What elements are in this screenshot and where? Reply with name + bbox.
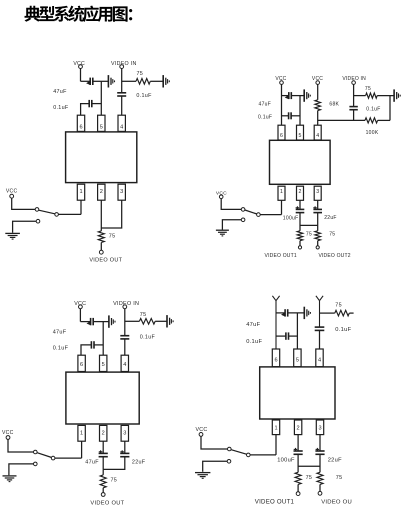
IC U2 body <box>270 140 331 184</box>
svg-text:6: 6 <box>80 362 83 368</box>
switch SW4 pole contact <box>228 447 232 451</box>
svg-text:4: 4 <box>123 362 126 368</box>
wire pin 2 down <box>299 200 301 209</box>
ground (switch) <box>5 233 20 239</box>
IC U4 pin 5 <box>294 349 301 367</box>
wire to 75 termination <box>354 95 366 97</box>
wire 0.1uF to pin5 node <box>92 103 101 105</box>
svg-text:75: 75 <box>335 303 342 309</box>
resistor 75 (output) <box>98 231 104 243</box>
ground (right of 47uF) <box>304 89 310 101</box>
IC U2 pin 6 <box>278 125 285 140</box>
IC U1 pin 4 <box>118 115 125 131</box>
capacitor 0.1uF (input coupling) <box>117 93 126 96</box>
svg-text:VIDEO IN: VIDEO IN <box>113 301 139 307</box>
wire 68K to pin4 <box>317 111 319 126</box>
wire cap2 to resistor 2 <box>319 454 321 472</box>
IC U4 pin 2 <box>294 420 301 435</box>
wire 0.1uF row <box>282 115 289 117</box>
resistor 75 (output 1) <box>295 472 301 484</box>
resistor 75 (termination) <box>335 310 350 316</box>
wire VCC to switch pole <box>12 198 35 209</box>
wire VCC to switch pole <box>201 436 227 449</box>
ground (switch) <box>195 473 210 479</box>
svg-text:5: 5 <box>100 124 103 130</box>
wire 75 stub end <box>349 312 353 314</box>
wire VIDEO IN down <box>353 84 355 106</box>
wire pin5 node vertical <box>102 322 104 356</box>
svg-text:47uF: 47uF <box>53 329 67 335</box>
wire VCC down to 47uF row <box>79 309 81 322</box>
wire pin5 node vertical <box>299 96 301 126</box>
input terminal VIDEO IN <box>352 81 356 85</box>
wire VCC to switch pole <box>8 439 33 452</box>
svg-text:VIDEO OUT: VIDEO OUT <box>89 257 122 263</box>
svg-text:75: 75 <box>111 477 118 483</box>
capacitor 22uF (output coupling 2) <box>313 206 322 212</box>
supply terminal VCC (enable) <box>6 436 10 440</box>
wire 47uF row left segment <box>80 321 90 323</box>
svg-text:47uF: 47uF <box>85 459 99 465</box>
switch SW4 blade <box>231 450 246 455</box>
wire coupling cap to pin4 <box>319 330 321 349</box>
wire 0.1uF row <box>276 335 286 337</box>
wire switch to pin 1 <box>58 213 81 215</box>
wire switch to pin 1 <box>250 454 276 456</box>
IC U1 pin 5 <box>98 115 105 131</box>
svg-text:0.1uF: 0.1uF <box>53 105 69 111</box>
svg-text:2: 2 <box>100 189 103 195</box>
svg-text:22uF: 22uF <box>132 459 146 465</box>
svg-text:VCC: VCC <box>275 76 286 82</box>
svg-text:0.1uF: 0.1uF <box>366 106 380 112</box>
IC U1 pin 3 <box>118 184 125 200</box>
wire VIDEO IN down <box>124 309 126 336</box>
wire lower throw to ground <box>203 461 228 472</box>
svg-text:VCC: VCC <box>74 301 86 307</box>
wire 75 to ground <box>377 95 394 97</box>
wire resistor to output terminal <box>100 243 102 251</box>
switch SW1 lower throw contact <box>36 219 40 223</box>
IC U1 pin 1 <box>77 184 84 200</box>
ground (right of 75) <box>163 75 169 87</box>
svg-text:VIDEO OUT1: VIDEO OUT1 <box>265 253 297 259</box>
IC U3 body <box>66 372 139 424</box>
ground (right of 47uF) <box>304 307 310 319</box>
wire VIDEO IN down <box>121 69 123 93</box>
svg-text:6: 6 <box>280 133 283 139</box>
svg-text:75: 75 <box>336 475 343 481</box>
wire resistor1 to terminal <box>297 484 299 491</box>
wire cap2 down and join <box>103 457 125 470</box>
svg-text:75: 75 <box>109 233 116 239</box>
svg-text:VCC: VCC <box>196 427 208 433</box>
svg-text:2: 2 <box>102 430 105 436</box>
output terminal VIDEO OUT1 <box>298 246 301 249</box>
svg-text:3: 3 <box>120 189 123 195</box>
wire resistor1 to terminal <box>299 241 301 246</box>
wire VCC down to 47uF row <box>80 69 82 82</box>
supply terminal VCC (bias) <box>316 81 320 85</box>
capacitor 0.1uF (input coupling) <box>315 327 325 330</box>
wire 47uF row to ground <box>292 95 304 97</box>
wire 47uF row to ground <box>93 80 108 82</box>
svg-text:6: 6 <box>274 358 277 364</box>
IC U3 pin 1 <box>78 425 85 441</box>
svg-text:22uF: 22uF <box>328 458 342 464</box>
wire resistor to terminal <box>102 488 104 493</box>
IC U3 pin 3 <box>121 425 128 441</box>
IC U3 pin 2 <box>100 425 107 441</box>
wire resistor2 to terminal <box>319 484 321 491</box>
IC U3 pin 5 <box>100 355 107 371</box>
switch SW4 lower throw contact <box>227 460 231 464</box>
capacitor 0.1uF (bypass) <box>91 341 94 348</box>
svg-text:47uF: 47uF <box>53 89 67 95</box>
wire coupling cap to pin4 <box>124 339 126 355</box>
wire pin 2 down <box>100 200 102 228</box>
svg-text:47uF: 47uF <box>246 322 260 328</box>
switch SW3 throw contact to pin1 <box>51 456 55 460</box>
wire pin5 node vertical <box>296 313 298 349</box>
output terminal VIDEO OUT2 <box>316 246 319 249</box>
wire cap1 down <box>102 457 104 470</box>
wire to 75 ohm termination <box>122 80 136 82</box>
svg-text:75: 75 <box>306 231 312 237</box>
wire 47uF row to ground <box>94 321 109 323</box>
svg-text:4: 4 <box>316 133 319 139</box>
svg-text:22uF: 22uF <box>324 215 337 221</box>
IC U2 pin 5 <box>297 125 304 140</box>
capacitor 0.1uF (bypass) <box>89 100 92 107</box>
svg-text:4: 4 <box>120 124 123 130</box>
wire join to output resistor <box>102 469 104 475</box>
IC U4 pin 6 <box>272 349 279 367</box>
IC U4 pin 4 <box>316 349 323 367</box>
svg-text:VCC: VCC <box>2 430 14 436</box>
svg-text:2: 2 <box>299 189 302 195</box>
wire lower throw to ground <box>13 221 37 233</box>
wire 100K to right riser <box>378 119 390 121</box>
wire 0.1uF to pin5 node <box>94 344 103 346</box>
output terminal VIDEO OUT <box>101 493 105 497</box>
wire 47uF row to ground <box>288 312 304 314</box>
wire 0.1uF to pin5 node <box>291 115 300 117</box>
wire switch to pin 1 <box>55 457 82 459</box>
capacitor 0.1uF (input coupling) <box>349 107 357 110</box>
capacitor 47uF (polarized) <box>281 309 288 316</box>
switch SW1 pole contact <box>35 208 39 212</box>
switch SW3 blade <box>37 453 51 458</box>
resistor 75 (termination) <box>139 319 155 325</box>
wire resistor2 to terminal <box>317 241 319 246</box>
resistor 75 (output 1) <box>297 231 303 241</box>
wire join outputs <box>298 465 320 467</box>
input terminal VIDEO IN <box>120 65 124 69</box>
switch SW4 throw contact to pin1 <box>247 453 251 457</box>
wire coupling cap down to bias row <box>353 110 355 121</box>
wire coupling cap to pin4 <box>121 96 123 115</box>
ground (right of 75) <box>167 315 173 327</box>
switch SW2 throw contact to pin1 <box>257 213 261 217</box>
wire 47uF row left segment <box>81 80 90 82</box>
wire lower throw to ground <box>222 220 241 230</box>
IC U2 pin 4 <box>314 125 321 140</box>
resistor 75 (termination) <box>366 93 378 98</box>
input terminal VIDEO IN <box>123 305 127 309</box>
IC U2 pin 3 <box>314 186 321 200</box>
resistor 100K (bias) <box>365 118 378 123</box>
circuit 4: supply stub (VCC) <box>272 296 279 349</box>
svg-text:VIDEO IN: VIDEO IN <box>342 76 366 82</box>
svg-text:100K: 100K <box>366 130 379 136</box>
capacitor 22uF (output coupling 2) <box>315 448 324 454</box>
output terminal VIDEO OUT1 <box>296 492 300 496</box>
wire VCC to 68K <box>317 84 319 99</box>
IC U1 pin 2 <box>98 184 105 200</box>
svg-text:6: 6 <box>79 124 82 130</box>
ground (switch) <box>3 476 17 482</box>
title 典型系统应用图： <box>25 6 133 22</box>
IC U3 pin 6 <box>78 355 85 371</box>
ground (right of 75) <box>394 89 400 101</box>
wire pin 3 down <box>319 435 321 451</box>
wire 0.1uF row from pin6 <box>81 104 89 116</box>
wire pin 2 down <box>102 441 104 453</box>
capacitor 0.1uF (bypass) <box>286 332 289 339</box>
wire 47uF row left segment <box>282 95 289 97</box>
svg-text:VCC: VCC <box>312 76 323 82</box>
svg-text:VCC: VCC <box>216 191 227 197</box>
wire bias row from pin4 node <box>318 119 365 121</box>
IC U2 pin 2 <box>297 186 304 200</box>
svg-text:VIDEO OU: VIDEO OU <box>321 499 352 505</box>
switch SW2 lower throw contact <box>241 218 245 222</box>
capacitor 0.1uF (input coupling) <box>120 336 129 339</box>
svg-text:75: 75 <box>140 312 147 318</box>
wire pin 3 down <box>124 441 126 453</box>
resistor 68K (bias) <box>315 100 321 111</box>
svg-text:0.1uF: 0.1uF <box>258 114 272 120</box>
svg-text:VCC: VCC <box>6 188 18 194</box>
capacitor 47uF (output coupling 1) <box>99 450 108 456</box>
svg-text:0.1uF: 0.1uF <box>53 345 69 351</box>
wire VCC down to pin6 <box>281 84 283 125</box>
switch SW2 pole contact <box>241 208 245 212</box>
svg-text:47uF: 47uF <box>259 101 272 107</box>
circuit 1: supply terminal VCC <box>79 65 83 69</box>
ground (right of 47uF) <box>108 75 114 87</box>
wire pin5 node vertical <box>100 81 102 115</box>
wire pin 3 down and join <box>101 200 121 228</box>
svg-text:VIDEO IN: VIDEO IN <box>111 61 137 67</box>
capacitor 100uF (output coupling 1) <box>296 206 305 212</box>
svg-text:5: 5 <box>299 133 302 139</box>
wire 47uF row left segment <box>276 312 285 314</box>
IC U4 pin 1 <box>272 420 279 435</box>
switch SW1 throw contact to pin1 <box>55 213 59 217</box>
wire switch to pin 1 <box>260 214 281 216</box>
wire pin 1 down <box>81 441 83 458</box>
capacitor 100uF (output coupling 1) <box>294 448 303 454</box>
IC U3 pin 4 <box>121 355 128 371</box>
svg-text:1: 1 <box>79 189 82 195</box>
wire VCC to switch pole <box>221 199 241 210</box>
wire cap1 down <box>297 454 299 472</box>
svg-text:0.1uF: 0.1uF <box>140 335 156 341</box>
circuit 2: supply terminal VCC <box>280 81 284 85</box>
IC U1 body <box>66 132 137 183</box>
svg-text:1: 1 <box>274 426 277 432</box>
resistor 75 (output 2) <box>315 231 321 241</box>
wire right riser to ground node <box>389 96 391 121</box>
IC U2 pin 1 <box>278 186 285 200</box>
IC U4 pin 3 <box>316 420 323 435</box>
wire 0.1uF to pin5 node <box>289 335 298 337</box>
svg-text:VIDEO OUT: VIDEO OUT <box>90 500 124 506</box>
wire 75 to ground <box>150 80 163 82</box>
svg-text:3: 3 <box>316 189 319 195</box>
svg-text:0.1uF: 0.1uF <box>136 93 152 99</box>
resistor 75 (output) <box>100 475 106 488</box>
svg-text:100uF: 100uF <box>283 215 299 221</box>
wire junction to 75 <box>320 312 335 314</box>
svg-text:0.1uF: 0.1uF <box>246 339 262 345</box>
svg-text:5: 5 <box>102 362 105 368</box>
svg-text:4: 4 <box>318 358 321 364</box>
IC U4 body <box>260 367 335 419</box>
capacitor 47uF (polarized) <box>87 318 94 325</box>
svg-text:3: 3 <box>123 430 126 436</box>
wire 0.1uF row from pin6 <box>81 345 91 355</box>
wire join outputs <box>300 224 318 226</box>
svg-text:VIDEO OUT2: VIDEO OUT2 <box>318 253 350 259</box>
svg-text:3: 3 <box>318 426 321 432</box>
ground (right of 47uF) <box>109 315 115 327</box>
wire pin 3 down <box>317 200 319 209</box>
switch SW2 blade <box>245 210 257 214</box>
wire pin 1 down <box>281 200 283 214</box>
svg-text:100uF: 100uF <box>277 458 295 464</box>
capacitor 47uF (polarized) <box>285 92 292 99</box>
supply terminal VCC (enable) <box>219 195 223 199</box>
output terminal VIDEO OUT2 <box>318 491 322 495</box>
supply terminal VCC (enable) <box>10 194 14 198</box>
svg-text:68K: 68K <box>329 101 339 107</box>
svg-text:2: 2 <box>297 426 300 432</box>
capacitor 47uF (polarized) <box>86 78 93 85</box>
svg-text:5: 5 <box>296 358 299 364</box>
resistor 75 (termination) <box>136 79 150 85</box>
svg-text:1: 1 <box>280 189 283 195</box>
wire to output resistor <box>100 228 102 231</box>
output terminal VIDEO OUT <box>99 250 103 254</box>
capacitor 0.1uF (bypass) <box>289 112 292 119</box>
resistor 75 (output 2) <box>317 472 323 484</box>
wire to 75 termination <box>125 320 140 322</box>
capacitor 22uF (output coupling 2) <box>120 450 129 456</box>
wire pin 2 down <box>297 435 299 451</box>
switch SW1 blade <box>39 210 55 214</box>
svg-text:VIDEO OUT1: VIDEO OUT1 <box>255 498 295 505</box>
svg-text:75: 75 <box>306 475 313 481</box>
svg-text:75: 75 <box>329 231 335 237</box>
svg-text:75: 75 <box>365 86 371 92</box>
wire cap1 down <box>299 213 301 231</box>
svg-text:75: 75 <box>137 71 144 77</box>
switch SW3 pole contact <box>34 450 38 454</box>
wire cap2 down <box>317 213 319 231</box>
supply terminal VCC (enable) <box>199 433 203 437</box>
wire pin 1 down <box>275 435 277 455</box>
input stub (signal) <box>316 296 323 327</box>
wire 75 to ground <box>155 320 167 322</box>
IC U1 pin 6 <box>77 115 84 131</box>
svg-text:1: 1 <box>80 430 83 436</box>
svg-text:VCC: VCC <box>73 61 85 67</box>
wire pin 1 down <box>80 200 82 214</box>
svg-text:0.1uF: 0.1uF <box>335 327 351 333</box>
switch SW3 lower throw contact <box>34 462 38 466</box>
ground (switch) <box>216 230 229 236</box>
wire lower throw to ground <box>9 464 34 475</box>
circuit 3: supply terminal VCC <box>79 305 83 309</box>
